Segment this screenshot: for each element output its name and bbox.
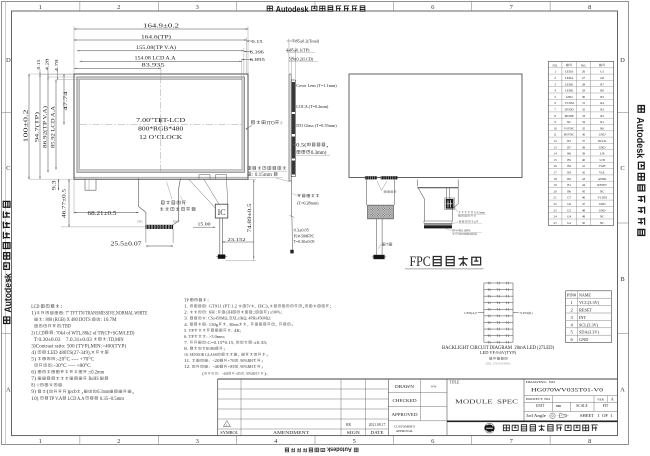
right tail funnel lines (189, 180, 228, 209)
svg-text:R5: R5 (600, 95, 604, 99)
dim 1.85 TP (286, 49, 292, 51)
svg-text:;: ; (266, 352, 268, 357)
dim 86.92 TP V.A (47, 77, 49, 172)
svg-text:G7: G7 (567, 196, 571, 200)
dim 25.5+-0.07 (146, 245, 173, 247)
svg-text:800*RGB*480: 800*RGB*480 (138, 126, 183, 133)
svg-text:T:0.30±0.03 7.0.31±0.03: T:0.30±0.03 7.0.31±0.03 (31, 338, 93, 343)
dim 7.85 total (287, 40, 297, 42)
svg-text:GND: GND (599, 145, 606, 149)
svg-text:HG070WV035T01-V0: HG070WV035T01-V0 (531, 387, 604, 393)
dim 5.5 LCD (291, 58, 296, 60)
svg-text:(T=0.28mm): (T=0.28mm) (297, 200, 319, 205)
svg-text:G0: G0 (600, 76, 604, 80)
svg-text:28: 28 (582, 82, 586, 86)
svg-text:SIGN: SIGN (347, 431, 360, 435)
svg-text:LEDA: LEDA (565, 76, 574, 80)
svg-text:FIT: FIT (603, 404, 609, 408)
dim 47.74 (63, 74, 65, 125)
svg-text:B2: B2 (567, 177, 571, 181)
svg-text:VCOM: VCOM (598, 196, 608, 200)
svg-text:94.7(TP): 94.7(TP) (36, 111, 41, 142)
svg-text:Autodesk: Autodesk (326, 446, 353, 452)
svg-text:24: 24 (554, 215, 558, 219)
svg-text:FPC: FPC (410, 254, 431, 270)
svg-text:: >5.0mm;: : >5.0mm; (206, 334, 225, 339)
svg-text::: : (207, 298, 209, 303)
svg-text:) ≥90%;: ) ≥90%; (268, 310, 282, 315)
svg-text:GND: GND (579, 337, 588, 342)
svg-text:8: 8 (588, 4, 591, 11)
svg-text:CHECKED: CHECKED (393, 399, 417, 403)
svg-text::±0.2mm: :±0.2mm (87, 371, 104, 376)
svg-text:26: 26 (582, 70, 586, 74)
svg-text:DCLK: DCLK (598, 139, 607, 143)
svg-text:B5: B5 (567, 158, 571, 162)
svg-text:TP V.A: TP V.A (49, 397, 63, 402)
revision table (218, 388, 389, 390)
svg-text:: 16.7M: : 16.7M (101, 318, 117, 323)
dim 85.92 LCD A.A (55, 80, 57, 170)
svg-text:PIN50: PIN50 (173, 221, 180, 224)
svg-text:NAME: NAME (579, 293, 591, 298)
svg-text:6.396: 6.396 (250, 49, 265, 54)
svg-text:83.935: 83.935 (142, 64, 166, 69)
svg-text:G1: G1 (600, 70, 604, 74)
svg-text:PIN#: PIN# (567, 293, 577, 298)
component note 1 (458, 211, 460, 213)
left dim extension lines (29, 73, 74, 75)
title block outline (218, 378, 618, 380)
svg-text:49: 49 (582, 215, 586, 219)
svg-text:RESET: RESET (597, 183, 607, 187)
svg-text:1: 1 (39, 438, 42, 445)
backlight caption cn (490, 357, 492, 359)
svg-text:5V: 5V (246, 304, 251, 309)
left FPC leader V (377, 181, 387, 191)
svg-text:,: , (132, 390, 134, 395)
svg-text:9): 9) (31, 390, 37, 395)
thick separator line (447, 420, 618, 422)
svg-text:;: ; (223, 346, 225, 351)
svg-text:Autodesk: Autodesk (274, 5, 310, 14)
middle FPC connector stack (424, 221, 452, 223)
dim 154.08 LCD A.A (80, 60, 242, 62)
svg-text:21: 21 (554, 196, 558, 200)
black component with pattern (446, 199, 454, 209)
svg-text:B0: B0 (567, 189, 571, 193)
svg-text:CUSTOMER'S: CUSTOMER'S (394, 424, 415, 428)
svg-text:40: 40 (582, 158, 586, 162)
svg-text:30: 30 (582, 95, 586, 99)
svg-text:SDA(3.3V): SDA(3.3V) (579, 330, 600, 335)
svg-text:;: ; (330, 304, 332, 309)
svg-text:TITLE: TITLE (450, 381, 461, 385)
svg-text:15.00: 15.00 (198, 221, 212, 226)
svg-text:1 OF 1: 1 OF 1 (598, 414, 613, 418)
svg-text:10): 10) (31, 397, 40, 402)
label ITO glass (293, 124, 296, 126)
IC pads on ledge (199, 175, 210, 180)
svg-text:7.85±0.2(Total): 7.85±0.2(Total) (292, 38, 319, 43)
svg-text:4.28: 4.28 (44, 59, 49, 71)
svg-text:LED VF:9.6V(TYP): LED VF:9.6V(TYP) (480, 350, 517, 355)
label quan 7 lei (382, 243, 385, 246)
svg-text:PIN1: PIN1 (137, 221, 143, 224)
svg-text:D: D (6, 57, 11, 64)
svg-text:NC: NC (567, 120, 571, 124)
dim 9.3 (58, 179, 60, 190)
svg-text:9.3: 9.3 (53, 179, 58, 190)
svg-text:R4: R4 (600, 101, 604, 105)
svg-text:: GT911 (PT:1.2: : GT911 (PT:1.2 (206, 304, 238, 309)
front view TP outline 164.9x100 (74, 74, 248, 179)
svg-text:G4: G4 (567, 215, 571, 219)
svg-text:ROHS: ROHS (206, 346, 215, 351)
front view LCD A.A rect (80, 80, 242, 170)
svg-text:4): 4) (31, 351, 37, 356)
svg-text:ITO: ITO (266, 120, 274, 126)
svg-text:2) LCD: 2) LCD (31, 331, 45, 336)
svg-text:Cover Lens (T=1.1mm): Cover Lens (T=1.1mm) (296, 83, 337, 88)
svg-text:R3: R3 (600, 108, 604, 112)
side view dim extensions (288, 39, 290, 74)
svg-text:85.92 LCD A.A: 85.92 LCD A.A (52, 105, 57, 148)
watermark bottom (rotated 180) (285, 446, 358, 452)
svg-text:;: ; (261, 358, 263, 363)
svg-text:8) ☆: 8) ☆ (31, 383, 40, 389)
svg-text:2021.08.17: 2021.08.17 (369, 423, 386, 427)
svg-text::±0.35;: :±0.35; (252, 340, 267, 345)
svg-text:APPROVAL: APPROVAL (396, 429, 413, 433)
svg-text:12 O’CLOCK: 12 O’CLOCK (139, 134, 183, 141)
svg-text:NO.: NO. (552, 63, 557, 67)
svg-text:154.08 LCD A.A: 154.08 LCD A.A (135, 56, 176, 62)
svg-text:86.92(TP V.A): 86.92(TP V.A) (44, 106, 49, 148)
svg-text:;: ; (291, 322, 293, 327)
label upper polarizer (384, 191, 386, 193)
svg-text:20: 20 (554, 189, 558, 193)
svg-text:2: 2 (117, 4, 120, 11)
svg-text:ww: ww (431, 383, 437, 388)
svg-text:(DEL.LTD 834-0894): (DEL.LTD 834-0894) (486, 362, 511, 365)
svg-text:155.08(TP V.A): 155.08(TP V.A) (136, 44, 176, 51)
svg-text:MODE: MODE (565, 114, 574, 118)
svg-text:7): 7) (31, 377, 37, 382)
svg-text:M: M (469, 232, 471, 236)
svg-text:: -40: : -40 (218, 372, 228, 376)
svg-text:RR: RR (346, 423, 351, 427)
svg-text:B3: B3 (567, 171, 571, 175)
svg-text:: 6H :: : 6H : (206, 310, 217, 315)
side view LCD stack outline (291, 80, 295, 176)
svg-text:: 130g: : 130g (206, 322, 219, 327)
svg-text:B4: B4 (567, 164, 571, 168)
svg-text:50: 50 (582, 221, 586, 225)
svg-text:18: 18 (554, 177, 558, 181)
svg-text:B1: B1 (567, 183, 571, 187)
backlight LED ladder 9x3 (483, 283, 485, 342)
svg-text::-30°C ---- +80°C: :-30°C ---- +80°C (52, 364, 91, 369)
svg-text:+70: +70 (228, 358, 235, 363)
annotation glue appearance note (248, 167, 251, 170)
dim 68.21+-0.5 (74, 212, 139, 214)
label cover lens (293, 85, 296, 87)
svg-text:LCD: LCD (31, 304, 40, 310)
svg-text:A: A (6, 387, 11, 394)
zone division ticks (79, 2, 81, 12)
FPC connector hatched (146, 225, 174, 229)
svg-text:R1: R1 (600, 120, 604, 124)
svg-text:0.5(: 0.5( (296, 142, 307, 149)
dim 94.7 TP (39, 74, 41, 179)
svg-text:RESET: RESET (579, 308, 593, 313)
svg-text:16: 16 (554, 164, 558, 168)
back view outline (349, 74, 522, 178)
svg-text:: 7″ TFT TN/TRANSMISSIVE,NORMA: : 7″ TFT TN/TRANSMISSIVE,NORMAL WHITE (63, 312, 147, 317)
svg-text:47: 47 (582, 202, 586, 206)
svg-text:RT: RT (567, 139, 571, 143)
svg-text:0.35~0.5mm: 0.35~0.5mm (99, 397, 125, 402)
bottom tab (85, 179, 96, 190)
svg-text:13: 13 (554, 145, 558, 149)
top dim extension lines (73, 27, 75, 75)
svg-text:LED(A)+: LED(A)+ (464, 311, 477, 315)
svg-text:AVDD: AVDD (598, 177, 607, 181)
dim 164.9+-0.2 (74, 28, 248, 30)
svg-text::TD,MIN: :TD,MIN (107, 338, 124, 343)
watermark right (rotated) (634, 106, 645, 236)
svg-text:3rd Angle: 3rd Angle (526, 414, 547, 418)
svg-text:0.15: 0.15 (252, 39, 263, 44)
svg-text:SCALE: SCALE (576, 404, 588, 408)
dim 155.08 TP V.A (77, 50, 244, 52)
dim 6.895 (242, 59, 252, 61)
side view cover lens bar (289, 74, 291, 181)
left FPC sides (365, 180, 367, 206)
left FPC connector (373, 255, 384, 259)
dim 74.89+-0.5 (253, 180, 255, 259)
svg-text:42: 42 (582, 171, 586, 175)
annotation component glue area (161, 201, 164, 204)
svg-text:7.: 7. (184, 340, 190, 345)
svg-text:35: 35 (582, 126, 586, 130)
company logo (484, 423, 494, 433)
svg-text:74.89±0.5: 74.89±0.5 (248, 203, 253, 233)
svg-text:5. TP: 5. TP (184, 328, 195, 333)
svg-text:)pcb: )pcb (67, 390, 77, 395)
svg-text:1: 1 (39, 4, 42, 11)
svg-text:B7: B7 (567, 145, 571, 149)
svg-text:+LED(K): +LED(K) (519, 311, 532, 315)
svg-text:VCC(3.3V): VCC(3.3V) (579, 300, 600, 305)
svg-text:INT: INT (579, 315, 587, 320)
svg-text:34: 34 (582, 120, 586, 124)
svg-text:;: ; (253, 310, 255, 315)
title column MODULE SPEC (523, 379, 525, 421)
svg-text:4×: 4× (455, 229, 458, 233)
svg-text:UNIT: UNIT (536, 404, 545, 408)
svg-text:22: 22 (554, 202, 558, 206)
svg-text:23.152: 23.152 (228, 237, 246, 242)
dim 83.935 (74, 67, 161, 69)
svg-text:LOCA (T=0.2mm): LOCA (T=0.2mm) (296, 104, 329, 109)
svg-text:NC: NC (600, 215, 604, 219)
svg-text:D: D (620, 57, 625, 64)
svg-text:SYMBOL: SYMBOL (220, 431, 239, 435)
svg-text:TP: TP (184, 298, 190, 303)
svg-text:U/D: U/D (599, 158, 605, 162)
svg-text:164.6(TP): 164.6(TP) (141, 33, 171, 40)
svg-text:39: 39 (582, 152, 586, 156)
svg-text:G5: G5 (567, 208, 571, 212)
svg-text:23: 23 (554, 208, 558, 212)
glue note leader (276, 178, 289, 181)
svg-text:A: A (611, 398, 614, 402)
svg-text:NC: NC (600, 189, 604, 193)
svg-text:R7: R7 (600, 82, 604, 86)
svg-text:: 800 (RGB) X 480 DOTS: : 800 (RGB) X 480 DOTS (43, 318, 92, 323)
connector sides below (145, 229, 147, 243)
left binding line (5, 2, 7, 445)
svg-text:: -20: : -20 (208, 358, 220, 363)
svg-text:48: 48 (582, 208, 586, 212)
svg-text:+85: +85 (235, 372, 241, 376)
svg-text:43: 43 (582, 177, 586, 181)
svg-text:HSYNC: HSYNC (564, 133, 575, 137)
svg-text:: 4K;: : 4K; (231, 328, 241, 333)
svg-text:1.85±0.1(TP): 1.85±0.1(TP) (286, 47, 310, 52)
svg-text:0.3mm: 0.3mm (97, 390, 109, 395)
annotation back is ITO side (251, 121, 254, 124)
svg-text:5: 5 (353, 438, 356, 445)
svg-text:33: 33 (582, 114, 586, 118)
svg-text:32: 32 (582, 108, 586, 112)
svg-text:LEDK: LEDK (565, 82, 574, 86)
svg-text:VGH: VGH (599, 164, 606, 168)
front view centerlines (80, 124, 242, 126)
svg-text:17: 17 (554, 171, 558, 175)
svg-text:25: 25 (554, 221, 558, 225)
svg-text:R6: R6 (600, 89, 604, 93)
side FPC line (291, 181, 293, 216)
svg-text:DRAWN: DRAWN (395, 385, 414, 389)
svg-text:37: 37 (582, 139, 586, 143)
svg-text:LEDA: LEDA (565, 70, 574, 74)
svg-text:R2: R2 (600, 114, 604, 118)
svg-text:B6: B6 (567, 152, 571, 156)
svg-text:GND: GND (599, 133, 606, 137)
dim 46.77+-0.5 (68, 179, 70, 227)
svg-text:100±0.2: 100±0.2 (23, 110, 29, 143)
svg-text:46: 46 (582, 196, 586, 200)
dim 23.152 (222, 241, 254, 243)
svg-text:25.5±0.07: 25.5±0.07 (111, 241, 143, 248)
right tail wires (219, 218, 221, 255)
svg-text:11: 11 (554, 133, 557, 137)
svg-text:38: 38 (582, 145, 586, 149)
svg-text:A: A (620, 387, 625, 394)
svg-text:LEDK: LEDK (565, 89, 574, 93)
svg-text:RoHS: RoHS (87, 377, 99, 382)
left FPC stiffener crosshatch (368, 205, 394, 219)
svg-text:31: 31 (582, 101, 586, 105)
svg-text:5): 5) (31, 357, 37, 362)
component note 3 (453, 229, 455, 231)
label LOCA (293, 105, 296, 107)
svg-text:0.3±0.05: 0.3±0.05 (294, 228, 309, 233)
svg-text:NC: NC (600, 221, 604, 225)
svg-text:DRAWING NO: DRAWING NO (526, 380, 556, 384)
svg-text:SCL(3.3V): SCL(3.3V) (579, 322, 599, 327)
front view bottom double line (74, 176, 248, 178)
svg-text:14: 14 (554, 152, 558, 156)
pin definition table 50 pins (548, 62, 613, 226)
svg-text::-20°C ---- +70°C: :-20°C ---- +70°C (56, 357, 95, 362)
middle FPC outline (417, 180, 458, 222)
annotation leaders (167, 182, 173, 200)
svg-text:12: 12 (554, 139, 558, 143)
svg-text:PROJECT NO: PROJECT NO (526, 397, 551, 401)
svg-text:IC: IC (218, 208, 226, 217)
side view stack dark layers (292, 82, 295, 112)
svg-text:1): 1) (31, 312, 36, 317)
svg-text:6): 6) (31, 371, 37, 376)
watermark left (rotated) (3, 201, 14, 323)
svg-text:R0: R0 (600, 126, 604, 130)
svg-text:45: 45 (582, 189, 586, 193)
svg-text:10. SENSOR GLASS: 10. SENSOR GLASS (184, 352, 217, 357)
svg-text:6. TP: 6. TP (184, 334, 195, 339)
svg-text:5.5±0.2(LCD): 5.5±0.2(LCD) (289, 57, 314, 62)
FPC tail outline (139, 178, 181, 225)
svg-text:2.: 2. (184, 310, 190, 315)
IC box (215, 204, 228, 218)
svg-text:ITO Glass (T=0.55mm): ITO Glass (T=0.55mm) (296, 123, 337, 128)
side FPC tick (289, 216, 294, 218)
svg-text:36: 36 (582, 133, 586, 137)
back view bonding strip (365, 176, 377, 179)
svg-text:GND: GND (566, 95, 573, 99)
svg-text:8: 8 (588, 438, 591, 445)
svg-text:3.: 3. (184, 316, 190, 321)
svg-text:G2: G2 (567, 221, 571, 225)
svg-text:T≤0.5mm: T≤0.5mm (474, 211, 486, 215)
svg-text:T=0.30±0.05: T=0.30±0.05 (294, 239, 315, 244)
svg-text:47.74: 47.74 (64, 91, 69, 111)
svg-text:SHEET: SHEET (580, 414, 595, 418)
svg-text:,: , (326, 143, 329, 149)
svg-text:mm: mm (556, 404, 562, 408)
svg-text:,: , (81, 390, 83, 395)
svg-text:VSYNC: VSYNC (564, 126, 575, 130)
svg-text:19: 19 (554, 183, 558, 187)
side FPC end connector (290, 250, 293, 254)
svg-text:164.9±0.2: 164.9±0.2 (143, 24, 179, 30)
svg-text:1.: 1. (184, 304, 190, 309)
svg-text:8.: 8. (184, 346, 190, 351)
svg-text::LED 480TS(27-349),: :LED 480TS(27-349), (47, 351, 91, 356)
component note 2 (459, 221, 461, 223)
svg-text:27: 27 (582, 76, 586, 80)
svg-text:B: B (620, 276, 625, 283)
touch FPC pin table (566, 291, 612, 343)
svg-text:3: 3 (196, 4, 199, 11)
svg-text:2: 2 (117, 438, 120, 445)
svg-text:LCD A.A: LCD A.A (67, 397, 85, 402)
dim 0.15 (247, 40, 253, 42)
svg-text:PCB: PCB (461, 232, 467, 236)
